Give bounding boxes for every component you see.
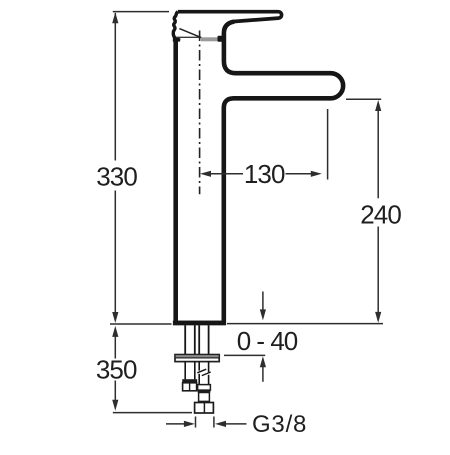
svg-text:0 - 40: 0 - 40 — [237, 326, 298, 356]
svg-text:240: 240 — [360, 200, 401, 230]
svg-text:130: 130 — [244, 159, 285, 189]
svg-text:G3/8: G3/8 — [252, 411, 307, 438]
svg-text:330: 330 — [96, 161, 137, 191]
svg-text:350: 350 — [96, 355, 137, 385]
